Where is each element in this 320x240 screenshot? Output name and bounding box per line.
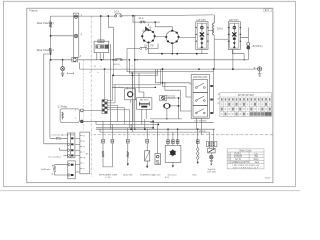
main switch title text [99, 40, 104, 43]
lower bus pair [127, 49, 214, 74]
resistor coil R1 [213, 15, 215, 35]
label fuse branch [139, 17, 144, 20]
main switch SW2 [94, 40, 109, 53]
ground G1 [61, 71, 64, 75]
pilot lamp L3 to ground [62, 60, 64, 67]
svg-text:MAIN: MAIN [99, 40, 104, 43]
svg-text:(+12): (+12) [106, 177, 111, 179]
label Rear Flasher 2 [37, 48, 55, 52]
battery BT1 [137, 98, 152, 110]
node lamp joint [62, 59, 64, 61]
box A internal elements [200, 24, 204, 49]
main switch pin letters [94, 65, 133, 67]
node headlight joints [166, 97, 179, 119]
box B internal elements [232, 24, 236, 49]
node ladder joints [162, 82, 166, 84]
CN4 rings and pins [68, 164, 70, 177]
dim sw right terminals [210, 85, 212, 114]
wire CN3 to legend box [75, 138, 80, 155]
meter U2 (round instrument) [166, 31, 178, 43]
node flasher joints [50, 35, 52, 61]
tick connector pair left [102, 139, 114, 143]
connector strip CN1 (left, 3-pin) [73, 13, 79, 57]
svg-text:BATTERY: BATTERY [140, 98, 150, 101]
svg-text:Rear Flasher 1: Rear Flasher 1 [37, 21, 55, 25]
diode chain comp [196, 140, 199, 144]
connector strip CN4 [68, 161, 75, 179]
horn comp box [155, 154, 160, 165]
wire meter link [155, 36, 166, 38]
ground arrow flasher [146, 166, 148, 168]
wire staple link [232, 50, 244, 60]
node start relay joints [112, 74, 156, 88]
stop switch group connector [206, 142, 217, 147]
svg-text:↑: ↑ [120, 65, 121, 68]
relay coil hatch [62, 112, 64, 120]
svg-text:W: W [83, 157, 85, 159]
svg-text:10 A: 10 A [114, 9, 119, 13]
pin number labels CN1 [80, 14, 83, 58]
starter relay label [58, 106, 68, 109]
svg-text:h: h [90, 72, 91, 74]
wire drop x134.8 [134, 16, 136, 129]
wire tail brake leads [52, 165, 68, 175]
tube heater U-loop [103, 143, 112, 167]
wire dim sw right bus vertical [211, 69, 214, 113]
brake switch drop [127, 143, 129, 164]
title block table "Wire Color" [227, 149, 264, 169]
wire rings down to bus [247, 49, 249, 60]
wire start relay feeds [112, 60, 160, 122]
svg-text:6 W 7 Y 8 R 9 G 10 L 11 P: 6 W 7 Y 8 R 9 G 10 L 11 P [233, 167, 259, 169]
svg-text:4P: 4P [218, 94, 220, 96]
legend box tiny letters [83, 135, 88, 170]
legend terminal box [80, 132, 90, 174]
relay terminals [80, 109, 83, 123]
wire meter2 to box A [179, 37, 196, 39]
node bus C joints [104, 59, 234, 70]
lamp L1 rear flasher 1 (hatched) [49, 22, 52, 28]
label under meter U1 [143, 46, 154, 48]
brake switch resistor hatched [127, 152, 129, 158]
harness boundary dash-dot vertical [90, 16, 92, 177]
fuse F4 [140, 47, 148, 49]
CDI unit box A [196, 22, 208, 50]
terminal rings +B [247, 43, 250, 50]
label coil [217, 27, 223, 30]
stop switch box [208, 148, 215, 153]
wire bus B right vertical to boxB [232, 50, 234, 70]
label license light [52, 134, 75, 137]
svg-text:Gen: Gen [255, 161, 260, 164]
svg-text:2Ω(+): 2Ω(+) [217, 27, 223, 30]
svg-text:Frame: Frame [29, 9, 38, 13]
wire drop to main switch [100, 16, 102, 41]
svg-text:12P (OP): 12P (OP) [229, 20, 239, 22]
svg-text:+B (OP-1): +B (OP-1) [252, 45, 263, 48]
label generator [165, 173, 177, 179]
label 10 A [114, 9, 119, 13]
svg-text:Stop/Tail: Stop/Tail [207, 168, 215, 171]
flasher relay drop [146, 143, 148, 166]
svg-text:Tail/Brake: Tail/Brake [41, 168, 51, 171]
wire nest verticals down [103, 119, 214, 154]
chassis dash-dot horizontal [94, 134, 273, 136]
wire ignition branch [133, 16, 172, 31]
svg-text:10 A: 10 A [139, 17, 144, 20]
label tube heater [99, 174, 118, 179]
title block text rows [228, 149, 260, 170]
wire long left drops [49, 60, 51, 139]
main bus B horizontal [51, 59, 249, 61]
starter relay RL1 box [60, 109, 79, 123]
node bus B joints [101, 59, 245, 61]
svg-text:DC-CDI: DC-CDI [153, 174, 160, 176]
node battery drop joints [132, 72, 136, 130]
generator disc [170, 149, 176, 156]
frame code label top-right [264, 8, 272, 12]
generator ground [172, 162, 174, 165]
wire CN2 top feed [104, 69, 106, 99]
label battery [140, 98, 150, 101]
connector strip CN3 bottom-left [68, 133, 75, 158]
label diode chain [192, 174, 196, 176]
page bottom shadow edge [0, 190, 300, 192]
generator input ticks [167, 140, 179, 144]
label fuse SP [114, 64, 121, 66]
wire instrument fuse line [127, 44, 158, 49]
svg-text:GREEN EARTH: GREEN EARTH [231, 161, 248, 164]
svg-text:9P: 9P [218, 103, 220, 105]
wire relay outputs [83, 110, 153, 121]
CN3 rings [67, 143, 69, 156]
dimmer switch box SW3 [191, 75, 209, 119]
wire battery leads [139, 73, 146, 124]
flasher relay box [145, 151, 150, 161]
label box B [229, 20, 239, 22]
label horn [153, 174, 160, 176]
headlight bulb comp [164, 103, 170, 108]
label tail brake [41, 168, 51, 171]
tail brake bulb L6 hatched [53, 166, 55, 172]
legend box row ticks [80, 136, 82, 169]
page border [3, 1, 295, 186]
label bracket none [68, 72, 74, 74]
svg-text:Brake SW: Brake SW [123, 174, 132, 176]
fuse F2 [140, 21, 146, 23]
svg-text:Generator: Generator [167, 173, 176, 176]
svg-text:Scale: Scale [265, 177, 271, 179]
wire boxB to rings [240, 28, 248, 43]
wire box A to coil [208, 30, 214, 32]
svg-text:DIM SW (OP): DIM SW (OP) [193, 77, 207, 79]
fuse F1 10A [115, 14, 122, 17]
lamp L2 rear flasher 2 (hatched) [49, 48, 52, 53]
stop lamp circle [210, 155, 213, 158]
wire distribution nest horizontals [96, 121, 215, 132]
frame title label top-left [29, 9, 38, 13]
tiny row labels left of grid [218, 94, 220, 105]
connector CN2 dark pins [102, 100, 107, 113]
pin 2 of CN1 [74, 34, 78, 38]
svg-text:6P: 6P [218, 99, 220, 101]
svg-text:Rear Flasher 2: Rear Flasher 2 [37, 48, 55, 52]
battery plates [139, 102, 149, 107]
key switch bowtie SW1 [143, 27, 151, 32]
wire dim sw bottom stubs [197, 118, 202, 135]
wire headlight connections [150, 98, 214, 122]
meter U1 (round instrument) [142, 30, 154, 42]
main switch contact grid [96, 45, 105, 49]
label +B OP-1 [252, 45, 263, 48]
pin 1 of CN1 [74, 15, 78, 19]
node y53.7 joints [161, 53, 198, 55]
wire drop stepped [108, 16, 113, 60]
heater resistor hatched [102, 151, 104, 157]
svg-text:(F): (F) [86, 154, 89, 156]
svg-text:12P (OP): 12P (OP) [196, 20, 206, 22]
node nest joints [130, 120, 198, 130]
ground arrow brake [127, 164, 129, 166]
label flasher relay [140, 173, 154, 176]
box A side pins [195, 27, 208, 42]
label dc socket [49, 155, 62, 158]
connector pin-layout grid table [220, 93, 272, 117]
harness boundary dash-dot vertical 2 [82, 60, 84, 131]
svg-text:(DC): (DC) [165, 177, 170, 179]
meter U2 terminal lugs [165, 30, 179, 44]
wire coil to box B [214, 38, 228, 40]
svg-text:(12V 5W): (12V 5W) [207, 172, 216, 174]
label Rear Flasher 1 [37, 21, 55, 25]
wire ladder to dim sw [155, 69, 191, 111]
label 4P OP near chassis line [199, 131, 206, 133]
wire instrument common y53.7 [149, 43, 209, 54]
fuse F3 on bus B [115, 59, 123, 61]
generator box [165, 145, 181, 162]
wire stop switch [209, 147, 213, 156]
pin tick letters under bus [90, 65, 122, 74]
label box A [196, 20, 206, 22]
start relay RL2 [125, 89, 136, 100]
node ignition joint [154, 21, 156, 23]
connector grid cell marks [221, 98, 272, 116]
svg-text:S. Relay: S. Relay [58, 106, 68, 109]
wire main switch stubs to bus [97, 53, 104, 60]
label under dim sw [194, 120, 207, 122]
oil sensor comp with box [160, 95, 167, 101]
svg-text:h: h [98, 72, 99, 74]
scale label bottom-right [265, 177, 271, 179]
main top bus wire [51, 15, 214, 16]
label brake sw [123, 174, 132, 176]
label dim sw [193, 77, 207, 79]
connector block CN2 2x6 [102, 100, 107, 114]
main switch side cell [105, 45, 108, 49]
meter U1 terminal lugs [141, 29, 156, 43]
svg-text:4P 6P 9P SW: 4P 6P 9P SW [238, 93, 254, 97]
wire license lamp row [44, 138, 68, 155]
wire bowtie to meter [147, 24, 149, 32]
wire CN4 right stubs [75, 165, 80, 172]
bus C horizontal [80, 63, 254, 70]
svg-text:Horn: Horn [192, 174, 196, 176]
label start relay [113, 86, 125, 89]
dim sw switch glyphs [195, 83, 205, 114]
license lamp L5 hatched [56, 137, 60, 139]
ground G2 [258, 71, 261, 76]
box B side pins [228, 27, 241, 42]
wire long drop [109, 44, 111, 129]
wire flasher2 left branch [44, 54, 51, 144]
CDI unit box B [228, 22, 240, 50]
wire flasher vertical chain [50, 16, 52, 60]
CN3 dark pins [71, 137, 73, 156]
relay pin labels [75, 110, 77, 121]
wire coil down [213, 35, 215, 69]
ground G3 [210, 159, 213, 163]
wire CN2 fan-out right [107, 75, 129, 128]
drawing frame [27, 8, 273, 183]
svg-text:DC socket(-): DC socket(-) [49, 155, 62, 158]
wire flasher1 feed to bus [51, 35, 74, 37]
svg-text:License Light (12V 5W): License Light (12V 5W) [52, 134, 75, 137]
pin 3 of CN1 in lamp box [72, 57, 78, 62]
node bus junctions top [100, 15, 136, 17]
wire drop left of battery [131, 73, 133, 132]
label 1P OP [167, 95, 175, 98]
pilot lamp L4 right with ground [253, 68, 257, 70]
label stop group [207, 168, 216, 174]
